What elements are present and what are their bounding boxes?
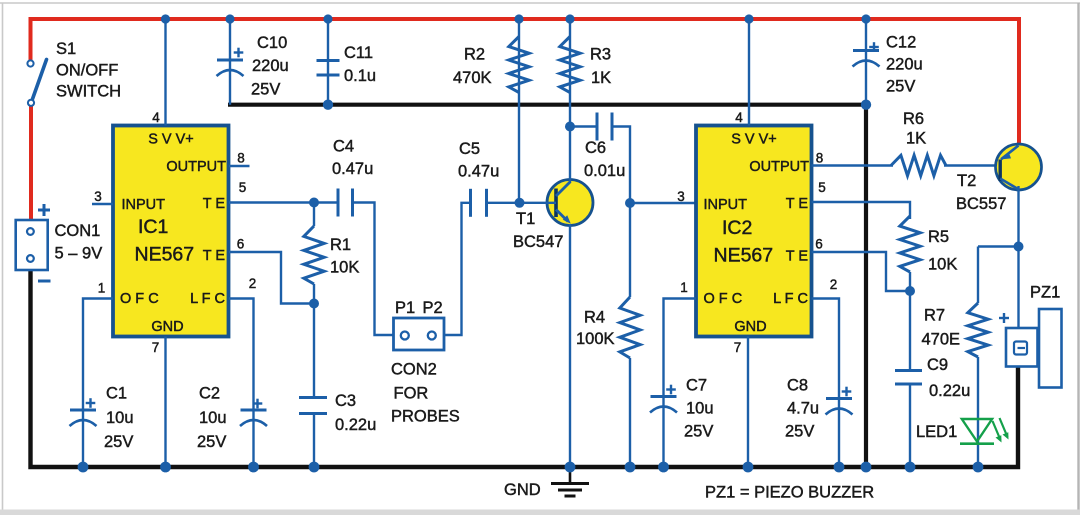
IC1 pin 2 wire bbox=[229, 299, 254, 411]
svg-text:C7: C7 bbox=[686, 377, 707, 395]
svg-text:10K: 10K bbox=[928, 256, 957, 274]
label R3 bbox=[590, 46, 611, 88]
transistor T1 BC547 bbox=[547, 180, 593, 226]
label C9 bbox=[927, 356, 970, 400]
svg-text:C1: C1 bbox=[106, 385, 127, 403]
buzzer PZ1 body bbox=[1039, 309, 1062, 388]
buzzer PZ1 terminal box bbox=[1006, 328, 1038, 367]
node R1 bottom bbox=[309, 299, 319, 309]
resistor R7 wire bbox=[977, 247, 979, 468]
capacitor C7 bbox=[650, 385, 677, 413]
IC2 pin 1 wire bbox=[664, 299, 697, 397]
svg-text:2: 2 bbox=[249, 276, 257, 291]
svg-text:25V: 25V bbox=[886, 78, 915, 96]
node T1 base bbox=[515, 198, 525, 208]
capacitor C10 wire bbox=[229, 19, 231, 105]
capacitor C11 bbox=[317, 61, 340, 76]
svg-text:R1: R1 bbox=[330, 236, 351, 254]
svg-text:5 – 9V: 5 – 9V bbox=[55, 245, 103, 263]
IC2 pin 2 label bbox=[830, 277, 838, 292]
svg-text:T E: T E bbox=[203, 248, 226, 264]
capacitor C6 wire bbox=[570, 127, 630, 204]
svg-text:C2: C2 bbox=[199, 385, 220, 403]
svg-text:C3: C3 bbox=[335, 392, 356, 410]
label LED1 bbox=[916, 423, 957, 441]
label C8 bbox=[785, 377, 819, 441]
svg-text:4.7u: 4.7u bbox=[787, 400, 819, 418]
svg-text:C6: C6 bbox=[585, 139, 606, 157]
label C7 bbox=[684, 377, 714, 441]
IC1 pin 4 wire bbox=[164, 19, 166, 126]
label C6 bbox=[584, 139, 625, 180]
ground bbox=[551, 467, 589, 496]
svg-text:OUTPUT: OUTPUT bbox=[749, 159, 809, 175]
node T2 collector bbox=[1014, 242, 1024, 252]
capacitor C3 bbox=[299, 398, 327, 414]
resistor R5 bbox=[900, 216, 920, 291]
capacitor C1 bbox=[70, 398, 97, 426]
svg-text:LED1: LED1 bbox=[916, 423, 957, 441]
svg-text:25V: 25V bbox=[251, 81, 280, 99]
capacitor C4 wire bbox=[314, 203, 394, 336]
svg-text:10u: 10u bbox=[106, 409, 134, 427]
svg-text:IC1: IC1 bbox=[138, 216, 168, 238]
svg-text:R6: R6 bbox=[903, 110, 924, 128]
label S1 bbox=[56, 40, 121, 101]
svg-text:CON1: CON1 bbox=[55, 222, 101, 240]
svg-text:25V: 25V bbox=[785, 423, 814, 441]
svg-text:8: 8 bbox=[816, 151, 824, 166]
label C3 bbox=[335, 392, 376, 434]
svg-text:1K: 1K bbox=[591, 69, 611, 87]
capacitor C2 bbox=[240, 399, 267, 426]
svg-text:PZ1: PZ1 bbox=[1030, 284, 1060, 302]
node R5 bottom bbox=[905, 286, 915, 296]
svg-text:O F C: O F C bbox=[120, 291, 159, 307]
svg-text:OUTPUT: OUTPUT bbox=[166, 159, 226, 175]
svg-text:C4: C4 bbox=[333, 138, 354, 156]
svg-text:IC2: IC2 bbox=[722, 217, 752, 239]
label C12 bbox=[886, 34, 923, 96]
IC1 pin 1 label bbox=[98, 281, 106, 296]
label C1 bbox=[104, 385, 134, 452]
label PZ1 = PIEZO BUZZER bbox=[705, 484, 874, 502]
label T1 bbox=[513, 210, 563, 251]
IC2 pin 4 label bbox=[735, 110, 743, 125]
svg-text:5: 5 bbox=[818, 180, 826, 195]
svg-text:CON2: CON2 bbox=[391, 361, 437, 379]
label R4 bbox=[576, 309, 615, 349]
svg-text:0.22u: 0.22u bbox=[929, 382, 970, 400]
svg-text:R3: R3 bbox=[590, 46, 611, 64]
T1 base wire bbox=[520, 202, 557, 204]
connector CON1 bbox=[16, 220, 48, 270]
svg-text:1: 1 bbox=[98, 281, 106, 296]
resistor R3 bbox=[560, 37, 580, 93]
label P1 P2 bbox=[395, 299, 443, 317]
label C10 bbox=[251, 34, 289, 99]
IC1 pin 7 label bbox=[152, 340, 160, 355]
svg-text:4: 4 bbox=[152, 110, 160, 125]
resistor R3 wire bbox=[569, 19, 571, 127]
LED LED1 bbox=[960, 418, 1009, 444]
IC2 pin 3 label bbox=[677, 189, 685, 204]
svg-text:P1: P1 bbox=[395, 299, 415, 317]
capacitor C8 wire bbox=[838, 399, 840, 468]
svg-text:25V: 25V bbox=[684, 423, 713, 441]
wire node to IC2 input bbox=[630, 202, 696, 204]
wire V+ rail (red) bbox=[31, 19, 1020, 146]
capacitor C1 wire bbox=[82, 410, 84, 467]
IC1 pin 5 label bbox=[239, 180, 247, 195]
node dots bottom rail bbox=[78, 462, 984, 473]
capacitor C2 wire bbox=[252, 410, 254, 467]
capacitor C12 bbox=[853, 42, 880, 66]
svg-text:L F C: L F C bbox=[190, 291, 225, 307]
svg-text:T E: T E bbox=[786, 249, 809, 265]
svg-text:SWITCH: SWITCH bbox=[56, 83, 121, 101]
capacitor C12 wire bbox=[865, 19, 867, 105]
node dots black rail bbox=[323, 100, 871, 110]
svg-text:GND: GND bbox=[734, 319, 766, 335]
IC2 pin 7 wire bbox=[747, 337, 749, 468]
svg-text:NE567: NE567 bbox=[135, 243, 195, 265]
switch S1 bbox=[27, 60, 46, 106]
svg-text:C11: C11 bbox=[344, 44, 373, 62]
IC2 pin 2 wire bbox=[812, 299, 840, 399]
IC1 pin 3 stub bbox=[92, 203, 113, 205]
capacitor C3 wire bbox=[313, 304, 315, 468]
label R7 bbox=[922, 307, 961, 349]
svg-text:PROBES: PROBES bbox=[391, 408, 460, 426]
svg-text:10K: 10K bbox=[330, 259, 359, 277]
capacitor C7 wire bbox=[662, 397, 664, 468]
svg-text:PZ1 = PIEZO BUZZER: PZ1 = PIEZO BUZZER bbox=[705, 484, 874, 502]
svg-text:T E: T E bbox=[786, 196, 809, 212]
svg-text:P2: P2 bbox=[423, 299, 443, 317]
IC1 pin 2 label bbox=[249, 276, 257, 291]
resistor R2 wire bbox=[518, 19, 520, 203]
svg-text:R2: R2 bbox=[464, 46, 485, 64]
svg-text:GND: GND bbox=[151, 319, 183, 335]
svg-text:7: 7 bbox=[734, 340, 742, 355]
op-amp IC1 NE567 body bbox=[113, 126, 229, 337]
svg-text:220u: 220u bbox=[886, 56, 923, 74]
capacitor C9 wire bbox=[909, 291, 911, 467]
label C5 bbox=[458, 140, 499, 181]
svg-text:R7: R7 bbox=[924, 307, 945, 325]
wire T2 to PZ1 bbox=[1017, 247, 1019, 329]
svg-text:ON/OFF: ON/OFF bbox=[56, 62, 118, 80]
IC2 pin 4 wire bbox=[748, 19, 750, 126]
svg-text:0.22u: 0.22u bbox=[335, 416, 376, 434]
wire T2 collector node bbox=[978, 245, 1019, 247]
wire ground rail left-bottom (black) bbox=[31, 270, 1019, 467]
node dots top rail bbox=[161, 14, 871, 23]
svg-text:T1: T1 bbox=[516, 210, 535, 228]
IC2 pin 6 label bbox=[815, 237, 823, 252]
label PZ1 bbox=[1030, 284, 1060, 302]
resistor R4 wire bbox=[629, 203, 631, 467]
svg-text:INPUT: INPUT bbox=[704, 197, 748, 213]
wire switch to CON1 (red) bbox=[29, 106, 33, 221]
svg-text:3: 3 bbox=[94, 189, 102, 204]
svg-text:T2: T2 bbox=[957, 172, 976, 190]
svg-text:C9: C9 bbox=[927, 356, 948, 374]
label C2 bbox=[197, 385, 227, 452]
svg-text:GND: GND bbox=[504, 481, 541, 499]
svg-text:100K: 100K bbox=[576, 330, 615, 348]
svg-text:INPUT: INPUT bbox=[122, 197, 166, 213]
capacitor C8 bbox=[826, 387, 853, 415]
label C11 bbox=[344, 44, 376, 85]
label GND bbox=[504, 481, 541, 499]
CON1 plus terminal bbox=[38, 204, 50, 216]
node C6 junction bbox=[565, 122, 575, 132]
svg-text:25V: 25V bbox=[197, 433, 226, 451]
op-amp IC2 NE567 body bbox=[696, 126, 812, 337]
IC2 pin 1 label bbox=[680, 280, 688, 295]
IC1 pin 3 label bbox=[94, 189, 102, 204]
svg-text:220u: 220u bbox=[252, 57, 289, 75]
resistor R2 bbox=[509, 37, 529, 93]
svg-text:470E: 470E bbox=[922, 331, 961, 349]
label CON1 bbox=[55, 222, 103, 263]
label R6 bbox=[903, 110, 926, 148]
capacitor C9 bbox=[895, 371, 922, 385]
svg-text:1: 1 bbox=[680, 280, 688, 295]
svg-text:0.01u: 0.01u bbox=[584, 162, 625, 180]
svg-text:NE567: NE567 bbox=[714, 245, 774, 267]
svg-text:S V V+: S V V+ bbox=[731, 132, 777, 148]
svg-text:8: 8 bbox=[237, 151, 245, 166]
svg-text:470K: 470K bbox=[453, 69, 492, 87]
svg-text:C12: C12 bbox=[886, 34, 916, 52]
label R2 bbox=[453, 46, 492, 88]
wire V- top rail (black) bbox=[228, 105, 866, 467]
T1 collector wire bbox=[569, 127, 571, 183]
resistor R4 bbox=[620, 297, 640, 358]
svg-text:S1: S1 bbox=[56, 40, 76, 58]
IC2 internal labels bbox=[704, 132, 810, 336]
svg-text:T E: T E bbox=[203, 196, 226, 212]
svg-text:O F C: O F C bbox=[704, 291, 743, 307]
IC1 pin 5 wire bbox=[229, 201, 314, 203]
svg-text:4: 4 bbox=[735, 110, 743, 125]
svg-text:2: 2 bbox=[830, 277, 838, 292]
IC2 pin 7 label bbox=[734, 340, 742, 355]
svg-text:3: 3 bbox=[677, 189, 685, 204]
svg-text:0.1u: 0.1u bbox=[344, 67, 376, 85]
IC2 pin 5 wire bbox=[812, 202, 911, 219]
svg-text:C5: C5 bbox=[459, 140, 480, 158]
T1 emitter wire bbox=[569, 224, 571, 467]
resistor R6 bbox=[891, 155, 946, 175]
IC1 pin 6 wire bbox=[229, 252, 315, 304]
connector CON2 bbox=[394, 318, 445, 350]
T2 collector wire bbox=[1017, 186, 1019, 247]
node C4 R1 bbox=[309, 198, 319, 208]
svg-text:C10: C10 bbox=[257, 34, 287, 52]
svg-text:6: 6 bbox=[237, 237, 245, 252]
svg-text:0.47u: 0.47u bbox=[458, 163, 499, 181]
resistor R7 bbox=[968, 303, 988, 357]
svg-text:BC557: BC557 bbox=[956, 195, 1006, 213]
label T2 bbox=[956, 172, 1006, 213]
svg-text:10u: 10u bbox=[199, 409, 227, 427]
capacitor C11 wire bbox=[327, 19, 329, 105]
IC1 pin 8 stub bbox=[229, 165, 250, 167]
label C4 bbox=[332, 138, 373, 179]
PZ1 plus terminal bbox=[999, 313, 1009, 323]
IC1 pin 6 label bbox=[237, 237, 245, 252]
node IC2 input bbox=[625, 198, 635, 208]
label CON2 FOR PROBES bbox=[391, 361, 460, 426]
svg-text:7: 7 bbox=[152, 340, 160, 355]
svg-text:R4: R4 bbox=[584, 309, 605, 327]
capacitor C5 wire bbox=[444, 203, 520, 335]
capacitor C6 bbox=[597, 113, 612, 141]
capacitor C10 bbox=[217, 48, 244, 76]
IC1 pin 7 wire bbox=[164, 337, 166, 468]
CON1 minus terminal bbox=[38, 280, 51, 283]
svg-text:S V V+: S V V+ bbox=[148, 132, 194, 148]
IC1 pin 1 wire bbox=[83, 299, 113, 411]
IC1 pin 4 label bbox=[152, 110, 160, 125]
svg-text:R5: R5 bbox=[928, 228, 949, 246]
IC1 pin 8 label bbox=[237, 151, 245, 166]
svg-text:C8: C8 bbox=[787, 377, 808, 395]
transistor T2 BC557 bbox=[996, 144, 1042, 190]
IC2 pin 5 label bbox=[818, 180, 826, 195]
IC2 pin 8 wire bbox=[812, 164, 894, 166]
svg-text:6: 6 bbox=[815, 237, 823, 252]
IC2 pin 6 wire bbox=[812, 252, 911, 291]
svg-text:5: 5 bbox=[239, 180, 247, 195]
resistor R1 bbox=[304, 203, 324, 304]
svg-text:BC547: BC547 bbox=[513, 233, 563, 251]
svg-text:10u: 10u bbox=[686, 400, 714, 418]
svg-text:L F C: L F C bbox=[773, 291, 808, 307]
svg-text:1K: 1K bbox=[906, 130, 926, 148]
svg-text:25V: 25V bbox=[104, 433, 133, 451]
resistor R6 wire bbox=[944, 164, 1000, 166]
svg-text:0.47u: 0.47u bbox=[332, 160, 373, 178]
IC2 pin 8 label bbox=[816, 151, 824, 166]
label R5 bbox=[928, 228, 957, 274]
capacitor C5 bbox=[471, 189, 487, 217]
label R1 bbox=[330, 236, 359, 277]
capacitor C4 bbox=[338, 189, 353, 217]
svg-text:FOR: FOR bbox=[394, 385, 429, 403]
IC1 internal labels bbox=[120, 132, 226, 336]
